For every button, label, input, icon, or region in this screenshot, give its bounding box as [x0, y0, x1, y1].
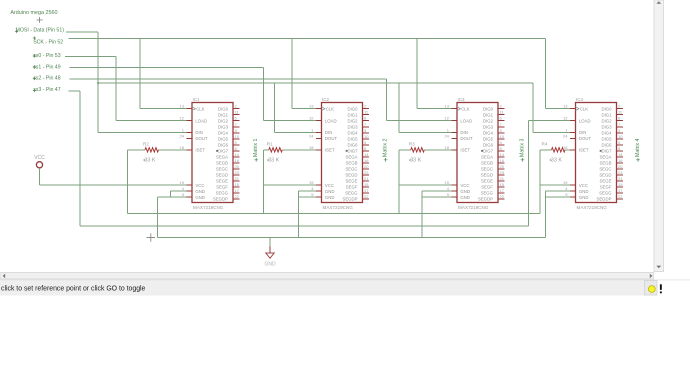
svg-text:SEGA: SEGA	[216, 154, 228, 159]
svg-text:ISET: ISET	[325, 147, 335, 152]
svg-text:DIG5: DIG5	[347, 136, 358, 141]
wire VCC riser IC4	[539, 150, 541, 214]
wire ss0 vertical to IC1 LOAD	[115, 57, 117, 121]
svg-text:20: 20	[500, 164, 505, 169]
svg-text:24: 24	[180, 133, 185, 138]
svg-text:GND: GND	[325, 195, 335, 200]
svg-text:33 K: 33 K	[410, 157, 421, 163]
svg-text:33 K: 33 K	[144, 157, 155, 163]
junction MOSI branch	[97, 82, 99, 84]
svg-text:17: 17	[500, 188, 505, 193]
svg-text:17: 17	[364, 188, 369, 193]
svg-text:DIG7: DIG7	[601, 148, 612, 153]
svg-text:DIG1: DIG1	[483, 112, 494, 117]
svg-text:Arduino mega 2560: Arduino mega 2560	[10, 10, 57, 16]
svg-text:19: 19	[309, 180, 314, 185]
svg-text:Matrix 3: Matrix 3	[520, 138, 526, 157]
wire CLK feed IC1	[140, 108, 188, 110]
svg-text:21: 21	[364, 176, 369, 181]
svg-text:DOUT: DOUT	[579, 136, 592, 141]
svg-text:VCC: VCC	[325, 183, 334, 188]
svg-text:SEGD: SEGD	[599, 173, 611, 178]
svg-text:24: 24	[309, 133, 314, 138]
wire LOAD feed IC3	[386, 120, 453, 122]
svg-text:IC4: IC4	[576, 97, 584, 102]
svg-text:DIG2: DIG2	[347, 118, 358, 123]
svg-text:10: 10	[500, 134, 505, 139]
sheet origin cross	[147, 233, 155, 241]
svg-text:13: 13	[309, 104, 314, 109]
wire R3 to ISET	[424, 149, 453, 151]
svg-text:23: 23	[618, 170, 623, 175]
svg-text:SCK - Pin 52: SCK - Pin 52	[33, 40, 63, 46]
supply VCC symbol	[34, 155, 45, 168]
svg-text:DIG5: DIG5	[218, 136, 229, 141]
svg-text:DIG0: DIG0	[483, 106, 494, 111]
svg-text:ss2 - Pin 48: ss2 - Pin 48	[33, 76, 61, 82]
svg-text:VCC: VCC	[579, 183, 588, 188]
status icon exclamation	[660, 284, 662, 293]
wire GND pins IC4	[546, 191, 572, 237]
wire VCC to IC3	[399, 184, 453, 186]
svg-text:R1: R1	[267, 141, 273, 146]
svg-text:DIG2: DIG2	[601, 118, 612, 123]
svg-text:18: 18	[309, 145, 314, 150]
svg-text:VCC: VCC	[195, 183, 204, 188]
wire SCK bus	[69, 38, 546, 40]
svg-text:ISET: ISET	[460, 147, 470, 152]
svg-text:13: 13	[563, 104, 568, 109]
svg-text:17: 17	[618, 188, 623, 193]
svg-text:SEGD: SEGD	[345, 173, 357, 178]
wire ss1	[69, 67, 263, 69]
svg-text:CLK: CLK	[461, 106, 469, 111]
Arduino mega 2560 title	[10, 10, 57, 16]
svg-text:SEGDP: SEGDP	[342, 197, 357, 202]
svg-text:R2: R2	[143, 141, 149, 146]
svg-text:SEGC: SEGC	[345, 167, 357, 172]
svg-text:DIG0: DIG0	[601, 106, 612, 111]
svg-text:LOAD: LOAD	[460, 118, 472, 123]
svg-text:DIG6: DIG6	[601, 142, 612, 147]
wire VCC to IC4	[540, 184, 572, 186]
svg-text:DIG3: DIG3	[218, 124, 229, 129]
wire GND pins IC1	[158, 191, 189, 237]
wire R1 to ISET	[282, 149, 317, 151]
svg-text:10: 10	[618, 134, 623, 139]
wire R4 to ISET	[565, 149, 572, 151]
svg-text:DIG2: DIG2	[483, 118, 494, 123]
svg-text:SEGB: SEGB	[216, 160, 228, 165]
svg-text:SEGG: SEGG	[481, 191, 494, 196]
svg-text:VCC: VCC	[460, 183, 469, 188]
svg-text:33 K: 33 K	[268, 157, 279, 163]
wire VCC riser IC2	[262, 150, 264, 214]
svg-text:15: 15	[500, 182, 505, 187]
wire VCC drop	[39, 168, 41, 185]
svg-text:DIG4: DIG4	[218, 130, 229, 135]
svg-text:DIG6: DIG6	[218, 142, 229, 147]
svg-text:SEGC: SEGC	[216, 167, 228, 172]
svg-text:DIG1: DIG1	[601, 112, 612, 117]
svg-text:DIG4: DIG4	[483, 130, 494, 135]
svg-text:IC3: IC3	[458, 97, 466, 102]
wire MOSI branch bus to DIN pins	[98, 82, 533, 84]
wire SCK drop to IC1 CLK	[139, 39, 141, 109]
svg-text:10: 10	[364, 134, 369, 139]
wire R4 left	[540, 149, 552, 151]
svg-text:DIG3: DIG3	[347, 124, 358, 129]
svg-text:SEGG: SEGG	[599, 191, 612, 196]
svg-text:SEGG: SEGG	[216, 191, 229, 196]
svg-text:MAX7219CNG: MAX7219CNG	[323, 205, 354, 210]
svg-text:SEGDP: SEGDP	[478, 197, 493, 202]
wire R2 to ISET	[159, 149, 189, 151]
svg-text:24: 24	[445, 133, 450, 138]
net label ss3	[33, 87, 61, 93]
svg-text:LOAD: LOAD	[579, 118, 591, 123]
svg-text:IC2: IC2	[322, 97, 330, 102]
net label MOSI	[15, 28, 64, 34]
svg-text:SEGF: SEGF	[216, 185, 228, 190]
ground symbol	[264, 238, 276, 268]
svg-text:33 K: 33 K	[551, 157, 562, 163]
svg-text:17: 17	[235, 188, 240, 193]
svg-text:SEGB: SEGB	[481, 160, 493, 165]
svg-text:CLK: CLK	[580, 106, 588, 111]
net label ss2	[33, 76, 61, 82]
wire GND pins IC3	[422, 191, 453, 237]
svg-text:DIG0: DIG0	[218, 106, 229, 111]
svg-text:MOSI - Data (Pin 51): MOSI - Data (Pin 51)	[16, 28, 65, 34]
wire R1 left	[263, 149, 269, 151]
svg-text:18: 18	[180, 145, 185, 150]
svg-text:20: 20	[364, 164, 369, 169]
svg-text:12: 12	[309, 116, 314, 121]
svg-text:SEGE: SEGE	[481, 179, 493, 184]
wire VCC riser IC1	[127, 150, 129, 214]
wire CLK feed IC4	[546, 108, 572, 110]
resistor R1 33 K	[267, 141, 283, 163]
svg-text:DIG3: DIG3	[601, 124, 612, 129]
svg-text:DIG7: DIG7	[483, 148, 494, 153]
net label ss0	[33, 53, 61, 59]
svg-text:ss0 - Pin 53: ss0 - Pin 53	[33, 53, 61, 59]
svg-text:DIN: DIN	[325, 130, 332, 135]
svg-text:22: 22	[364, 194, 369, 199]
svg-text:DOUT: DOUT	[325, 136, 338, 141]
wire DIN drop IC4	[532, 83, 534, 132]
svg-text:DIG5: DIG5	[483, 136, 494, 141]
status bar	[0, 280, 690, 296]
svg-text:18: 18	[445, 145, 450, 150]
wire LOAD feed IC1	[116, 120, 188, 122]
svg-text:DIG7: DIG7	[218, 148, 229, 153]
wire DIN drop IC3	[398, 83, 400, 132]
svg-text:16: 16	[235, 158, 240, 163]
svg-text:click to set reference point o: click to set reference point or click GO…	[1, 286, 146, 293]
svg-text:Matrix 2: Matrix 2	[383, 138, 389, 157]
svg-text:DOUT: DOUT	[195, 136, 208, 141]
wire VCC riser IC3	[398, 150, 400, 214]
wire R2 left	[128, 149, 146, 151]
svg-text:10: 10	[235, 134, 240, 139]
wire VCC bottom bus	[128, 213, 540, 215]
wire DIN drop IC2	[274, 83, 276, 132]
svg-text:24: 24	[563, 133, 568, 138]
svg-text:DIG1: DIG1	[218, 112, 229, 117]
wire VCC to IC1	[40, 184, 189, 186]
net label Matrix 2	[383, 138, 389, 161]
svg-text:Matrix 1: Matrix 1	[253, 138, 259, 157]
wire ss2	[69, 78, 386, 80]
net label Matrix 3	[520, 138, 526, 161]
svg-text:LOAD: LOAD	[195, 118, 207, 123]
svg-text:SEGDP: SEGDP	[213, 197, 228, 202]
wire ss3 vertical to IC4 LOAD	[528, 121, 530, 226]
svg-text:SEGE: SEGE	[600, 179, 612, 184]
svg-text:DIG5: DIG5	[601, 136, 612, 141]
wire ss3	[69, 90, 80, 92]
wire DIN feed IC3	[399, 131, 453, 133]
svg-text:22: 22	[500, 194, 505, 199]
svg-text:SEGF: SEGF	[600, 185, 612, 190]
svg-text:MAX7219CNG: MAX7219CNG	[193, 205, 224, 210]
wire SCK drop to IC4 CLK	[545, 39, 547, 109]
svg-text:19: 19	[563, 180, 568, 185]
IC chip IC3 MAX7219CNG	[445, 97, 505, 210]
horizontal scrollbar	[0, 273, 654, 280]
wire LOAD feed IC2	[263, 120, 317, 122]
svg-text:SEGF: SEGF	[346, 185, 358, 190]
wire R3 left	[399, 149, 411, 151]
svg-text:R4: R4	[542, 141, 548, 146]
svg-text:MAX7219CNG: MAX7219CNG	[577, 205, 608, 210]
svg-text:DIG7: DIG7	[347, 148, 358, 153]
svg-text:15: 15	[364, 182, 369, 187]
svg-text:SEGC: SEGC	[599, 167, 611, 172]
svg-text:12: 12	[445, 116, 450, 121]
net label Matrix 4	[635, 138, 641, 161]
svg-text:20: 20	[618, 164, 623, 169]
svg-text:12: 12	[180, 116, 185, 121]
svg-text:20: 20	[235, 164, 240, 169]
svg-text:GND: GND	[460, 189, 470, 194]
wire DIN feed IC2	[275, 131, 318, 133]
wire ss2 vertical to IC3 LOAD	[385, 79, 387, 121]
net label ss1	[33, 64, 61, 70]
svg-text:CLK: CLK	[196, 106, 204, 111]
svg-text:DIN: DIN	[460, 130, 467, 135]
resistor R2 33 K	[143, 141, 159, 163]
svg-text:SEGD: SEGD	[481, 173, 493, 178]
svg-text:SEGE: SEGE	[346, 179, 358, 184]
svg-text:14: 14	[235, 152, 240, 157]
svg-text:SEGA: SEGA	[346, 154, 358, 159]
svg-text:14: 14	[618, 152, 623, 157]
svg-text:ss1 - Pin 49: ss1 - Pin 49	[33, 64, 61, 70]
svg-text:GND: GND	[195, 195, 205, 200]
IC chip IC1 MAX7219CNG	[180, 97, 240, 210]
wire GND bottom bus	[158, 237, 546, 239]
svg-text:R3: R3	[409, 141, 415, 146]
svg-text:SEGB: SEGB	[600, 160, 612, 165]
svg-text:14: 14	[364, 152, 369, 157]
svg-text:SEGDP: SEGDP	[596, 197, 611, 202]
svg-text:21: 21	[235, 176, 240, 181]
svg-text:ss3 - Pin 47: ss3 - Pin 47	[33, 87, 61, 93]
svg-text:19: 19	[445, 180, 450, 185]
svg-text:13: 13	[180, 104, 185, 109]
wire DIN feed IC1	[98, 131, 188, 133]
svg-text:GND: GND	[264, 262, 276, 268]
svg-text:DIG2: DIG2	[218, 118, 229, 123]
svg-text:SEGA: SEGA	[481, 154, 493, 159]
svg-text:SEGB: SEGB	[346, 160, 358, 165]
svg-text:DIG4: DIG4	[601, 130, 612, 135]
svg-text:DIG4: DIG4	[347, 130, 358, 135]
svg-text:IC1: IC1	[193, 97, 201, 102]
wire CLK feed IC2	[292, 108, 318, 110]
wire ss1 vertical to IC2 LOAD	[262, 68, 264, 121]
resistor R3 33 K	[409, 141, 425, 163]
svg-text:Matrix 4: Matrix 4	[635, 138, 641, 157]
svg-text:19: 19	[180, 180, 185, 185]
svg-text:DIN: DIN	[195, 130, 202, 135]
IC chip IC4 MAX7219CNG	[563, 97, 623, 210]
net label Matrix 1	[253, 138, 259, 161]
wire MOSI vertical to IC1 DIN	[97, 32, 99, 132]
svg-text:MAX7219CNG: MAX7219CNG	[458, 205, 489, 210]
svg-text:15: 15	[235, 182, 240, 187]
wire SCK drop to IC3 CLK	[416, 39, 418, 109]
svg-text:ISET: ISET	[579, 147, 589, 152]
svg-text:22: 22	[618, 194, 623, 199]
wire ss3 bottom bus	[80, 225, 529, 227]
wire ss0	[65, 56, 116, 58]
wire SCK drop to IC2 CLK	[291, 39, 293, 109]
svg-text:GND: GND	[195, 189, 205, 194]
svg-text:22: 22	[235, 194, 240, 199]
wire LOAD feed IC4	[529, 120, 572, 122]
svg-text:CLK: CLK	[326, 106, 334, 111]
origin cross under title	[37, 17, 43, 23]
svg-text:GND: GND	[325, 189, 335, 194]
IC chip IC2 MAX7219CNG	[309, 97, 369, 210]
svg-text:DIN: DIN	[579, 130, 586, 135]
svg-text:DIG0: DIG0	[347, 106, 358, 111]
svg-text:SEGG: SEGG	[345, 191, 358, 196]
svg-text:23: 23	[364, 170, 369, 175]
svg-text:DIG6: DIG6	[347, 142, 358, 147]
svg-text:DIG6: DIG6	[483, 142, 494, 147]
svg-text:DOUT: DOUT	[460, 136, 473, 141]
svg-text:SEGD: SEGD	[216, 173, 228, 178]
status icon yellow circle	[645, 281, 658, 296]
svg-text:DIG3: DIG3	[483, 124, 494, 129]
wire GND pins IC2	[298, 191, 317, 237]
svg-text:16: 16	[500, 158, 505, 163]
svg-text:SEGF: SEGF	[481, 185, 493, 190]
svg-text:SEGA: SEGA	[600, 154, 612, 159]
svg-text:16: 16	[618, 158, 623, 163]
wire ss3 vertical	[79, 91, 81, 226]
net label SCK	[33, 36, 64, 45]
svg-text:VCC: VCC	[34, 155, 45, 161]
svg-text:21: 21	[618, 176, 623, 181]
svg-text:16: 16	[364, 158, 369, 163]
resistor R4 33 K	[542, 141, 566, 163]
svg-text:SEGE: SEGE	[216, 179, 228, 184]
wire CLK feed IC3	[417, 108, 453, 110]
svg-text:12: 12	[563, 116, 568, 121]
wire MOSI horizontal	[66, 31, 98, 33]
wire VCC to IC2	[263, 184, 317, 186]
svg-text:LOAD: LOAD	[325, 118, 337, 123]
svg-text:ISET: ISET	[195, 147, 205, 152]
svg-text:GND: GND	[460, 195, 470, 200]
vertical scrollbar	[654, 0, 664, 272]
svg-text:GND: GND	[579, 189, 589, 194]
svg-text:14: 14	[500, 152, 505, 157]
svg-text:21: 21	[500, 176, 505, 181]
svg-text:23: 23	[500, 170, 505, 175]
svg-text:18: 18	[563, 145, 568, 150]
svg-text:SEGC: SEGC	[481, 167, 493, 172]
svg-text:13: 13	[445, 104, 450, 109]
wire DIN feed IC4	[533, 131, 572, 133]
svg-text:23: 23	[235, 170, 240, 175]
svg-text:15: 15	[618, 182, 623, 187]
svg-text:GND: GND	[579, 195, 589, 200]
svg-text:DIG1: DIG1	[347, 112, 358, 117]
